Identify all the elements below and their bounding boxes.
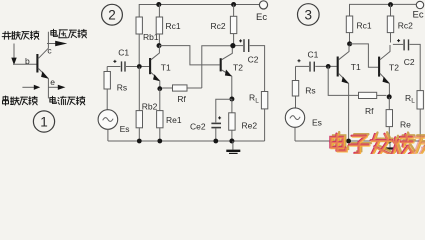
svg-text:Rc2: Rc2 bbox=[398, 21, 413, 31]
watermark main row (crimson) bbox=[330, 134, 425, 154]
node junction Rc2 top bbox=[231, 2, 236, 7]
watermark shadow (khaki fringe) bbox=[333, 132, 425, 152]
transistor T2 bbox=[220, 58, 222, 71]
wire C1 to T1 base bbox=[126, 66, 149, 68]
svg-text:2: 2 bbox=[108, 8, 116, 23]
node junction Re2 ground bbox=[229, 139, 234, 144]
svg-text:Rc2: Rc2 bbox=[211, 21, 226, 31]
wire Es to ground rail bbox=[294, 127, 296, 141]
svg-text:C2: C2 bbox=[404, 57, 415, 67]
transistor T1 bbox=[337, 57, 339, 77]
resistor Rc1 bbox=[346, 16, 352, 33]
resistor RL (load) bbox=[417, 91, 423, 109]
node junction Ce2 ground bbox=[213, 139, 218, 144]
svg-text:T1: T1 bbox=[161, 63, 171, 73]
node label 电压反馈 bbox=[51, 29, 87, 38]
svg-text:Re: Re bbox=[400, 120, 411, 130]
watermark shadow (orange) bbox=[332, 134, 425, 154]
svg-text:Rc1: Rc1 bbox=[357, 21, 372, 31]
svg-text:R: R bbox=[405, 93, 411, 103]
resistor Rf (feedback) bbox=[359, 92, 377, 98]
svg-text:Ce2: Ce2 bbox=[190, 121, 206, 131]
resistor Rf (feedback) bbox=[162, 87, 172, 89]
wire C2 to RL bbox=[410, 44, 421, 90]
node junction T1 base bbox=[326, 64, 331, 69]
svg-text:Rs: Rs bbox=[117, 82, 127, 92]
svg-text:Es: Es bbox=[312, 118, 322, 128]
arrow series-feedback input (right) bbox=[22, 86, 34, 88]
node label 串联反馈 bbox=[3, 96, 38, 105]
arrow current-feedback (right) bbox=[48, 86, 58, 88]
resistor Rb1 bbox=[136, 17, 142, 34]
resistor Re1 bbox=[159, 89, 161, 111]
resistor Rc1 bbox=[158, 5, 160, 18]
svg-text:T1: T1 bbox=[351, 62, 361, 72]
wire T1 collector to T2 base bbox=[159, 46, 220, 65]
svg-text:C1: C1 bbox=[308, 50, 319, 60]
node junction T2 emitter bbox=[387, 94, 392, 99]
resistor Rs (source) bbox=[295, 66, 297, 80]
node junction T2 collector bbox=[230, 43, 235, 48]
svg-text:Rs: Rs bbox=[305, 85, 315, 95]
node junction Rb2 ground bbox=[137, 139, 142, 144]
resistor Rc2 bbox=[233, 5, 235, 17]
terminal Ec supply bbox=[416, 1, 423, 8]
wire top supply rail (circuit 2) bbox=[139, 5, 260, 18]
capacitor C2 bbox=[239, 39, 242, 42]
wire bottom rail (circuit 2) bbox=[108, 140, 265, 142]
transistor T1 bbox=[149, 58, 151, 74]
resistor Rb2 bbox=[138, 67, 140, 111]
capacitor Ce2 (bypass) bbox=[218, 116, 221, 119]
svg-text:b: b bbox=[25, 56, 30, 66]
resistor Re bbox=[388, 97, 390, 110]
figure number 2 bbox=[102, 4, 123, 25]
transistor (type symbol) bbox=[36, 54, 38, 73]
node junction T1 emitter ground bbox=[346, 139, 351, 144]
svg-text:3: 3 bbox=[305, 7, 313, 22]
svg-text:T2: T2 bbox=[233, 62, 243, 72]
svg-text:e: e bbox=[50, 77, 55, 87]
wire feedback T1 base to Rf bbox=[328, 66, 358, 95]
svg-text:Re1: Re1 bbox=[166, 115, 182, 125]
svg-text:C1: C1 bbox=[118, 48, 129, 58]
wire feedback Rf to T2 collector bbox=[202, 46, 231, 88]
resistor Re2 bbox=[231, 99, 233, 113]
svg-text:Es: Es bbox=[120, 124, 130, 134]
source Es (sine generator) bbox=[98, 110, 118, 130]
svg-text:L: L bbox=[411, 98, 415, 105]
figure number 3 bbox=[298, 4, 320, 26]
wire Es to ground rail bbox=[107, 129, 109, 141]
svg-text:Ec: Ec bbox=[413, 9, 424, 20]
svg-text:L: L bbox=[255, 98, 259, 105]
svg-text:Rf: Rf bbox=[365, 106, 374, 116]
watermark highlight (yellow) bbox=[331, 135, 425, 155]
resistor Rs (source) bbox=[106, 67, 108, 72]
node label 并联反馈 bbox=[2, 31, 39, 39]
wire base lead bbox=[13, 63, 37, 65]
svg-text:Rf: Rf bbox=[177, 94, 186, 104]
wire T1 collector to T2 base bbox=[350, 44, 379, 67]
node junction T1 collector bbox=[347, 41, 352, 46]
node junction Re ground bbox=[387, 139, 392, 144]
node junction Rc1 top bbox=[156, 2, 161, 7]
node junction T1 collector bbox=[157, 43, 162, 48]
resistor Rc2 bbox=[390, 5, 392, 16]
terminal Ec supply bbox=[259, 1, 267, 9]
wire bottom rail (circuit 3) bbox=[295, 140, 420, 142]
resistor RL (load) bbox=[261, 92, 267, 109]
svg-text:c: c bbox=[47, 46, 52, 56]
wire C1 to T1 base bbox=[315, 65, 337, 67]
svg-text:R: R bbox=[249, 93, 255, 103]
svg-text:1: 1 bbox=[40, 114, 48, 129]
ground bbox=[389, 141, 391, 147]
wire T2 emitter to Ce2 bbox=[216, 99, 232, 122]
ground bbox=[232, 141, 234, 150]
node junction Re1 ground bbox=[157, 139, 162, 144]
node junction T2 emitter bbox=[229, 97, 234, 102]
svg-text:Rb2: Rb2 bbox=[142, 102, 158, 112]
node junction Rc2 top bbox=[388, 2, 393, 7]
node junction T1 base bbox=[137, 64, 142, 69]
node label 电流反馈 bbox=[50, 96, 85, 105]
svg-text:C2: C2 bbox=[248, 55, 259, 65]
svg-text:T2: T2 bbox=[389, 63, 399, 73]
wire Rb1 to base node bbox=[138, 34, 140, 67]
node junction T1 emitter bbox=[157, 86, 162, 91]
svg-text:Re2: Re2 bbox=[242, 120, 258, 130]
wire C2 to RL bbox=[250, 46, 265, 92]
svg-text:Rc1: Rc1 bbox=[166, 21, 181, 31]
wire top supply rail (circuit 3) bbox=[350, 4, 417, 16]
arrow parallel-feedback input (down) bbox=[13, 44, 15, 59]
arrow voltage-feedback (right) bbox=[47, 43, 56, 45]
capacitor C2 bbox=[397, 39, 400, 42]
figure number 1 bbox=[33, 111, 54, 132]
transistor T2 bbox=[378, 57, 380, 77]
svg-text:Ec: Ec bbox=[256, 12, 267, 23]
source Es (sine generator) bbox=[285, 108, 304, 127]
